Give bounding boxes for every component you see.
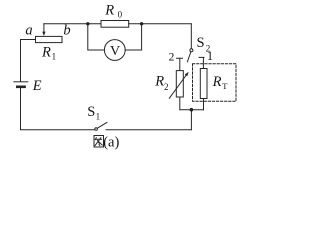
svg-text:S: S [197, 35, 205, 51]
switch S1 [95, 128, 98, 131]
dashed enclosure box [193, 64, 237, 102]
wire right column down to switch S2 [190, 24, 192, 49]
voltmeter U1 (V) [104, 40, 125, 61]
svg-text:R: R [104, 3, 114, 19]
node junction right of R0 [140, 22, 143, 25]
wire top-right segment (R0 to S2 corner) [129, 23, 192, 25]
svg-text:a: a [25, 23, 32, 39]
switch S2 [190, 49, 193, 52]
wire R1 left terminal to battery [21, 40, 36, 82]
svg-text:1: 1 [96, 111, 101, 121]
node junction left of R0 [86, 22, 89, 25]
wire S1 to bottom-right riser [106, 129, 191, 131]
wire voltmeter left branch [88, 24, 105, 50]
rheostat R2 [176, 71, 183, 97]
svg-text:0: 0 [118, 10, 123, 20]
svg-text:(a): (a) [103, 135, 119, 151]
svg-text:S: S [87, 104, 95, 120]
svg-text:T: T [222, 81, 228, 91]
caption glyph 图 [94, 136, 104, 148]
resistor R0 [101, 21, 129, 28]
pin 1 contact of S2 [199, 57, 204, 68]
svg-text:R: R [212, 74, 222, 90]
svg-text:b: b [63, 23, 70, 39]
svg-text:2: 2 [169, 52, 175, 64]
battery E [14, 81, 28, 83]
svg-text:R: R [154, 74, 164, 90]
svg-text:1: 1 [207, 49, 213, 63]
wire top-left segment (slider b to R0) [44, 23, 101, 25]
wire R2 bottom lead [179, 97, 181, 110]
svg-text:E: E [32, 78, 42, 94]
svg-text:2: 2 [164, 82, 169, 92]
svg-text:1: 1 [52, 52, 57, 62]
wire RT bottom lead [203, 99, 205, 110]
wire bottom-right riser [190, 110, 192, 130]
thermistor RT [200, 69, 207, 99]
wire battery to switch S1 [21, 88, 95, 130]
potentiometer R1 [36, 36, 63, 42]
wiper arrow of R1 [43, 24, 45, 32]
wire bottom connector between R2 and RT branches [180, 109, 204, 111]
pin 2 contact of S2 [177, 58, 183, 70]
wire voltmeter right branch [125, 24, 141, 50]
node bottom junction [190, 108, 194, 112]
svg-text:R: R [41, 45, 51, 61]
svg-text:V: V [110, 44, 120, 59]
